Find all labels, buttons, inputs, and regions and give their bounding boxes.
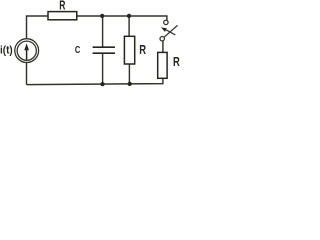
wire: capacitor branch top — [102, 16, 104, 47]
switch motion arrow shaft — [166, 30, 175, 35]
wire: switch bottom circle to right resistor R3 — [162, 41, 164, 52]
switch bottom terminal circle — [160, 37, 164, 41]
svg-text:C: C — [75, 45, 81, 56]
wire: capacitor branch bottom — [102, 54, 104, 85]
junction node: bottom rail / middle resistor — [128, 82, 132, 86]
resistor R3 box (right) — [158, 52, 167, 78]
svg-text:R: R — [59, 0, 65, 12]
svg-text:R: R — [173, 54, 180, 69]
junction node: top rail / middle resistor — [127, 14, 131, 18]
wire: top rail from R1 to switch elbow — [77, 16, 167, 20]
junction node: top rail / capacitor — [100, 14, 104, 18]
capacitor C top plate — [93, 46, 115, 48]
resistor R1 box (top) — [48, 12, 77, 20]
wire: bottom rail — [27, 78, 163, 84]
switch blade — [164, 25, 177, 37]
current source arrow head — [24, 43, 29, 50]
wire: source top to top rail, left segment to R1 — [27, 16, 49, 39]
current source i(t) inner circle — [17, 41, 36, 60]
switch top terminal circle — [164, 20, 168, 24]
wire: middle resistor branch top — [128, 16, 130, 36]
current source i(t) outer circle — [15, 39, 39, 63]
junction node: bottom rail / capacitor — [100, 82, 104, 86]
switch motion arrow head — [161, 27, 167, 32]
wire: source bottom to bottom rail corner — [26, 62, 28, 84]
wire: middle resistor branch bottom — [128, 64, 130, 84]
current source arrow shaft — [26, 50, 28, 60]
capacitor C bottom plate — [93, 52, 115, 54]
resistor R2 box (middle) — [124, 36, 134, 64]
svg-text:R: R — [139, 43, 146, 57]
svg-text:i(t): i(t) — [0, 45, 13, 57]
